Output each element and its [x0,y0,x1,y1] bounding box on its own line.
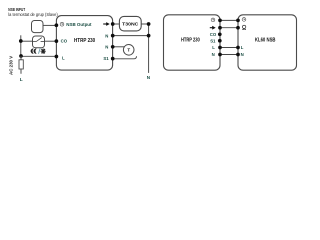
moon / sun icons [31,48,46,54]
svg-text:L: L [62,55,65,60]
wire: switch to CO terminal [45,40,57,42]
svg-text:NSB Output: NSB Output [66,22,92,27]
svg-text:L: L [241,45,244,50]
svg-text:S1: S1 [103,56,109,61]
receiver KL60 NSB [238,15,297,70]
N bus wire down [148,24,150,73]
svg-text:N: N [241,52,244,57]
wire: contact to NSB input terminal [43,24,56,26]
svg-text:S1: S1 [210,38,216,43]
clock glyph KL60 input [242,18,246,22]
junction dots on N bus [147,22,151,26]
svg-text:T: T [127,48,130,53]
svg-text:HTRP 230: HTRP 230 [181,38,200,44]
switch box (NSB switch) [33,36,45,48]
wire: L rail to thermostat [21,55,57,57]
terminal dots master right edge [218,19,222,23]
terminal dots on left edge of HTRP 230 [55,23,59,27]
svg-text:N: N [105,33,108,38]
arrow NSB output direction (inside box, right) [103,22,110,26]
thermostat HTRP 230 (slave, left) [56,16,112,71]
wire: actuator to N bus [141,23,148,25]
actuator T30NC [119,16,141,31]
svg-text:KL60 NSB: KL60 NSB [255,37,276,43]
fuse F1 [19,56,23,74]
wire: bus stub to switch [21,40,33,42]
wires master to KL60 [220,19,238,21]
sensor T circle [123,45,134,56]
terminal dots on right edge [111,22,115,26]
wire: S1 row under sensor, curling up [113,56,137,59]
svg-text:CO: CO [210,32,217,37]
wire: N row to sensor [113,46,128,48]
svg-text:N: N [105,45,108,50]
junction dot at fuse top [19,54,23,58]
svg-text:CO: CO [61,39,68,44]
clock glyph NSB input terminal [60,22,64,26]
wire: N row to N bus [113,35,149,37]
svg-text:L: L [212,45,215,50]
wire: left bus [20,35,22,56]
junction dot [19,39,23,43]
svg-text:la termostat de grup (Slave): la termostat de grup (Slave) [8,12,58,17]
terminal dots KL60 left edge [236,19,240,23]
thermostat HTRP 230 (master, right) [164,15,221,70]
omega glyph KL60 NSB input [242,25,246,29]
svg-text:AC 230 V: AC 230 V [9,55,15,75]
wire: NSB out to actuator [113,23,120,25]
svg-text:T30NC: T30NC [122,22,139,28]
svg-text:N: N [212,52,215,57]
clock glyph on master output [211,18,215,22]
svg-text:HTRP 230: HTRP 230 [74,38,95,44]
arrow NSB output direction (master) [210,26,216,30]
svg-text:L: L [20,77,23,83]
relay contact box (NSB source) [32,21,44,33]
